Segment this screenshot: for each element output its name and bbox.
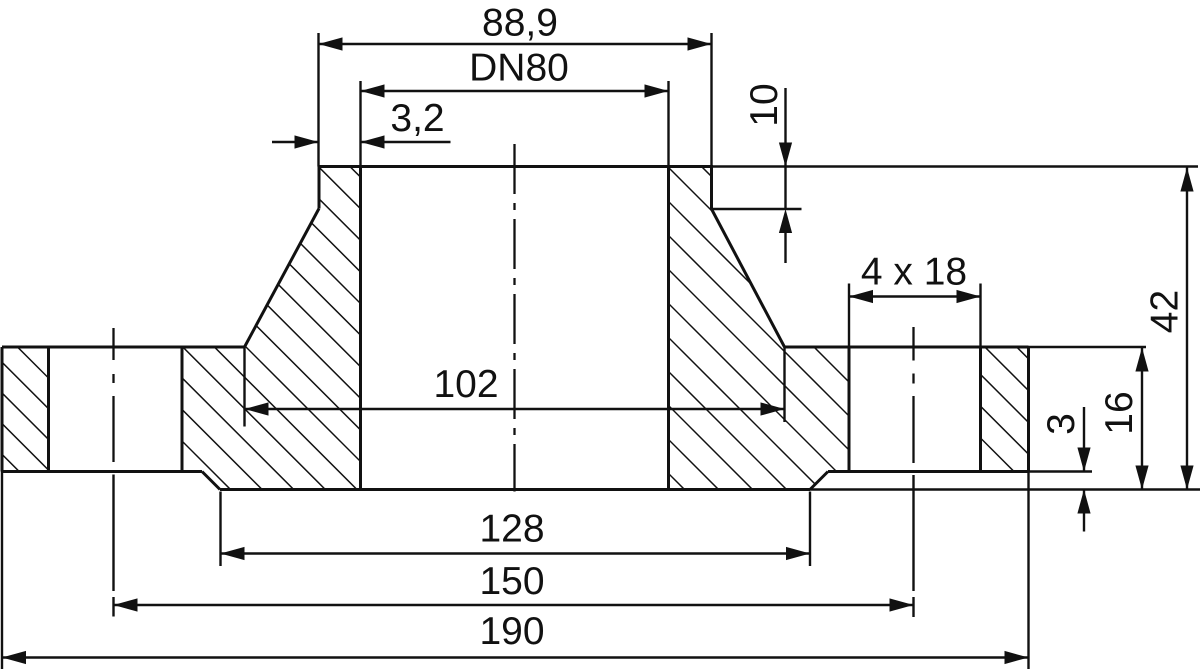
extension line of flange right edge for dim 190 — [1027, 472, 1029, 669]
flange outline: back face right outer ring — [828, 470, 1029, 473]
dimension 3,2: right arrow leader — [361, 141, 451, 143]
dimension 10: extension line at slope start — [712, 208, 802, 210]
dimension 4 x 18: dimension line with arrows — [849, 295, 981, 297]
main vertical centerline (dash-dot) — [513, 144, 515, 492]
flange outline: raised-face chamfer right — [810, 472, 828, 490]
flange outline: right bolt hole wall left — [848, 347, 851, 472]
svg-text:DN80: DN80 — [469, 46, 569, 89]
right bolt hole centerline (dash-dot) — [912, 327, 914, 361]
svg-text:42: 42 — [1144, 290, 1187, 333]
extension line of raised face bottom for dims 3 and 42 — [810, 488, 1200, 490]
flange outline: flange top surface right part — [785, 346, 1029, 349]
dimension 102: dimension line with arrows — [245, 408, 785, 410]
dimension 3,2: left arrow leader — [272, 141, 319, 143]
flange outline: back face left outer ring — [2, 470, 202, 473]
flange outline: hub slope left — [245, 209, 320, 348]
dimension 102: extension lines — [243, 347, 245, 427]
dimension 128: dimension line with arrows — [221, 552, 811, 554]
flange outline: neck outer edge right — [710, 165, 713, 209]
svg-text:102: 102 — [433, 363, 498, 406]
flange outline: raised-face chamfer left — [202, 472, 220, 490]
flange outline: flange top surface left part — [2, 346, 245, 349]
flange outline: flange outer edge left — [1, 347, 4, 472]
dimension 42: dimension line with arrows — [1186, 168, 1188, 490]
svg-text:150: 150 — [479, 560, 544, 603]
flange outline: left bolt hole wall left — [47, 347, 50, 472]
dimension 3: lower outside arrow — [1083, 490, 1085, 532]
svg-text:16: 16 — [1098, 391, 1141, 434]
dimension DN80: extension lines — [359, 81, 361, 167]
flange outline: bore wall right — [667, 167, 670, 490]
svg-text:3,2: 3,2 — [390, 97, 444, 140]
hatching: left rim section — [0, 330, 1200, 669]
flange outline: neck outer edge left — [318, 165, 321, 209]
svg-text:10: 10 — [743, 83, 786, 126]
extension line above right bolt hole for dim 4x18 left — [848, 284, 850, 348]
dimension 16: dimension line with arrows — [1141, 348, 1143, 490]
svg-text:3: 3 — [1040, 413, 1083, 435]
dimension 190: dimension line with arrows — [2, 656, 1029, 658]
left bolt hole centerline (dash-dot) — [112, 328, 114, 360]
flange outline: bore wall left — [359, 167, 362, 490]
dimension 150: dimension line with arrows — [114, 604, 914, 606]
extension line of neck top for dim 42 — [712, 165, 1199, 167]
dimension 88,9: extension lines — [317, 33, 319, 167]
flange outline: flange outer edge right — [1027, 347, 1030, 472]
extension line of back face for dim 3 — [1029, 470, 1093, 472]
dimension 88,9: dimension line with arrows — [319, 43, 712, 45]
flange outline: right bolt hole wall right — [979, 347, 982, 472]
dimension 3: upper outside arrow — [1083, 407, 1085, 472]
flange outline: hub slope right — [712, 209, 785, 347]
extension line of flange top for dim 16 — [1029, 346, 1147, 348]
dimension DN80: dimension line with arrows — [361, 90, 669, 92]
extension line of flange left edge for dim 190 — [1, 472, 3, 669]
extension of right bolt centerline for dim 150 — [912, 475, 914, 591]
svg-text:190: 190 — [479, 610, 544, 653]
svg-text:128: 128 — [479, 508, 544, 551]
flange outline: raised face bottom surface — [220, 488, 810, 491]
svg-text:4 x 18: 4 x 18 — [861, 251, 967, 294]
extension line above right bolt hole for dim 4x18 right — [979, 284, 981, 348]
extension of left bolt centerline for dim 150 — [112, 475, 114, 592]
dimension 128: extension lines — [219, 492, 221, 567]
svg-text:88,9: 88,9 — [482, 2, 558, 45]
flange outline: neck top surface — [319, 165, 712, 168]
dimension 10: dimension line with outside arrows — [784, 88, 786, 167]
flange outline: left bolt hole wall right — [181, 347, 184, 472]
